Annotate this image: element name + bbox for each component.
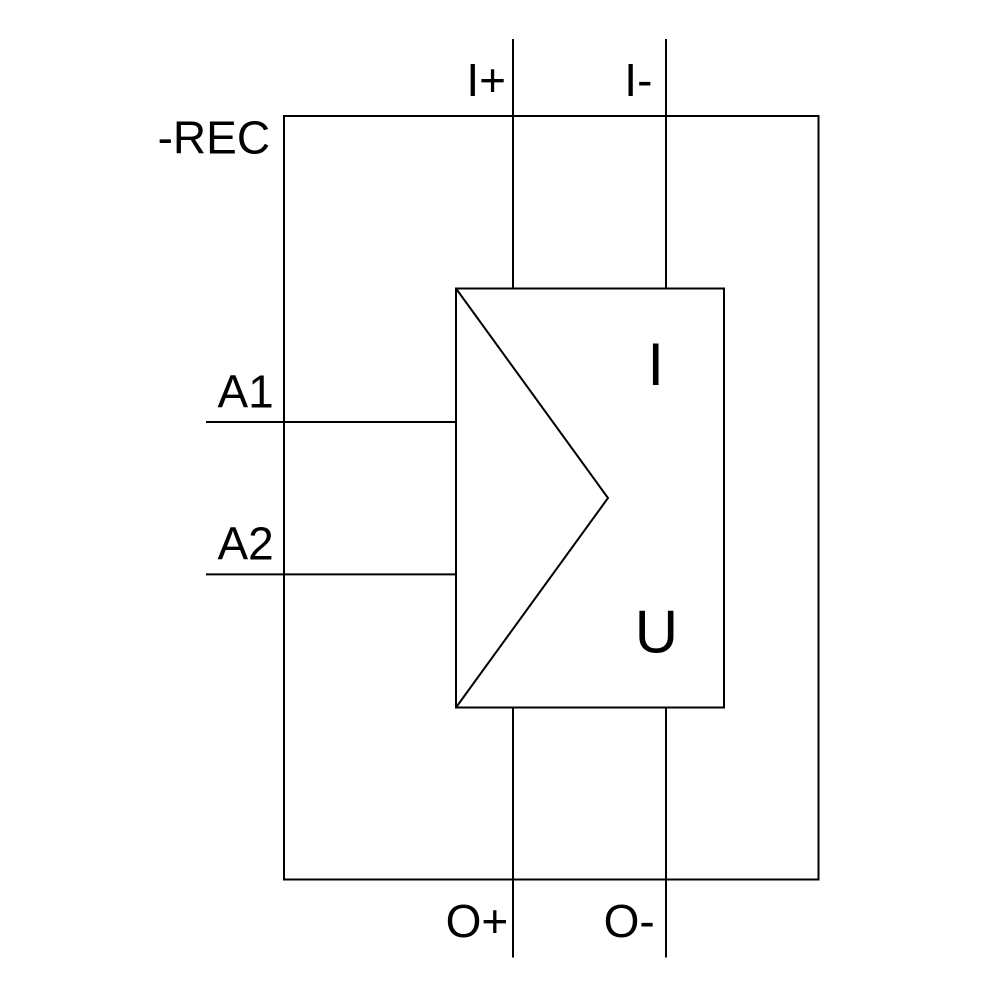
- svg-text:O-: O-: [604, 895, 655, 947]
- wire A2 lead: [206, 573, 456, 575]
- svg-text:I+: I+: [466, 54, 506, 106]
- converter U1 body: [456, 289, 724, 708]
- wire O- lead: [665, 708, 667, 958]
- svg-text:-REC: -REC: [158, 111, 270, 163]
- svg-text:O+: O+: [446, 895, 509, 947]
- wire I+ lead: [512, 39, 514, 289]
- svg-text:U: U: [635, 599, 678, 666]
- wire O+ lead: [512, 708, 514, 958]
- svg-text:I: I: [647, 331, 664, 398]
- svg-text:A2: A2: [218, 518, 274, 570]
- converter U1 chevron: [456, 289, 608, 708]
- svg-text:I-: I-: [624, 54, 652, 106]
- outer box -REC: [284, 116, 819, 880]
- wire A1 lead: [206, 421, 456, 423]
- svg-text:A1: A1: [218, 365, 274, 417]
- wire I- lead: [665, 39, 667, 289]
